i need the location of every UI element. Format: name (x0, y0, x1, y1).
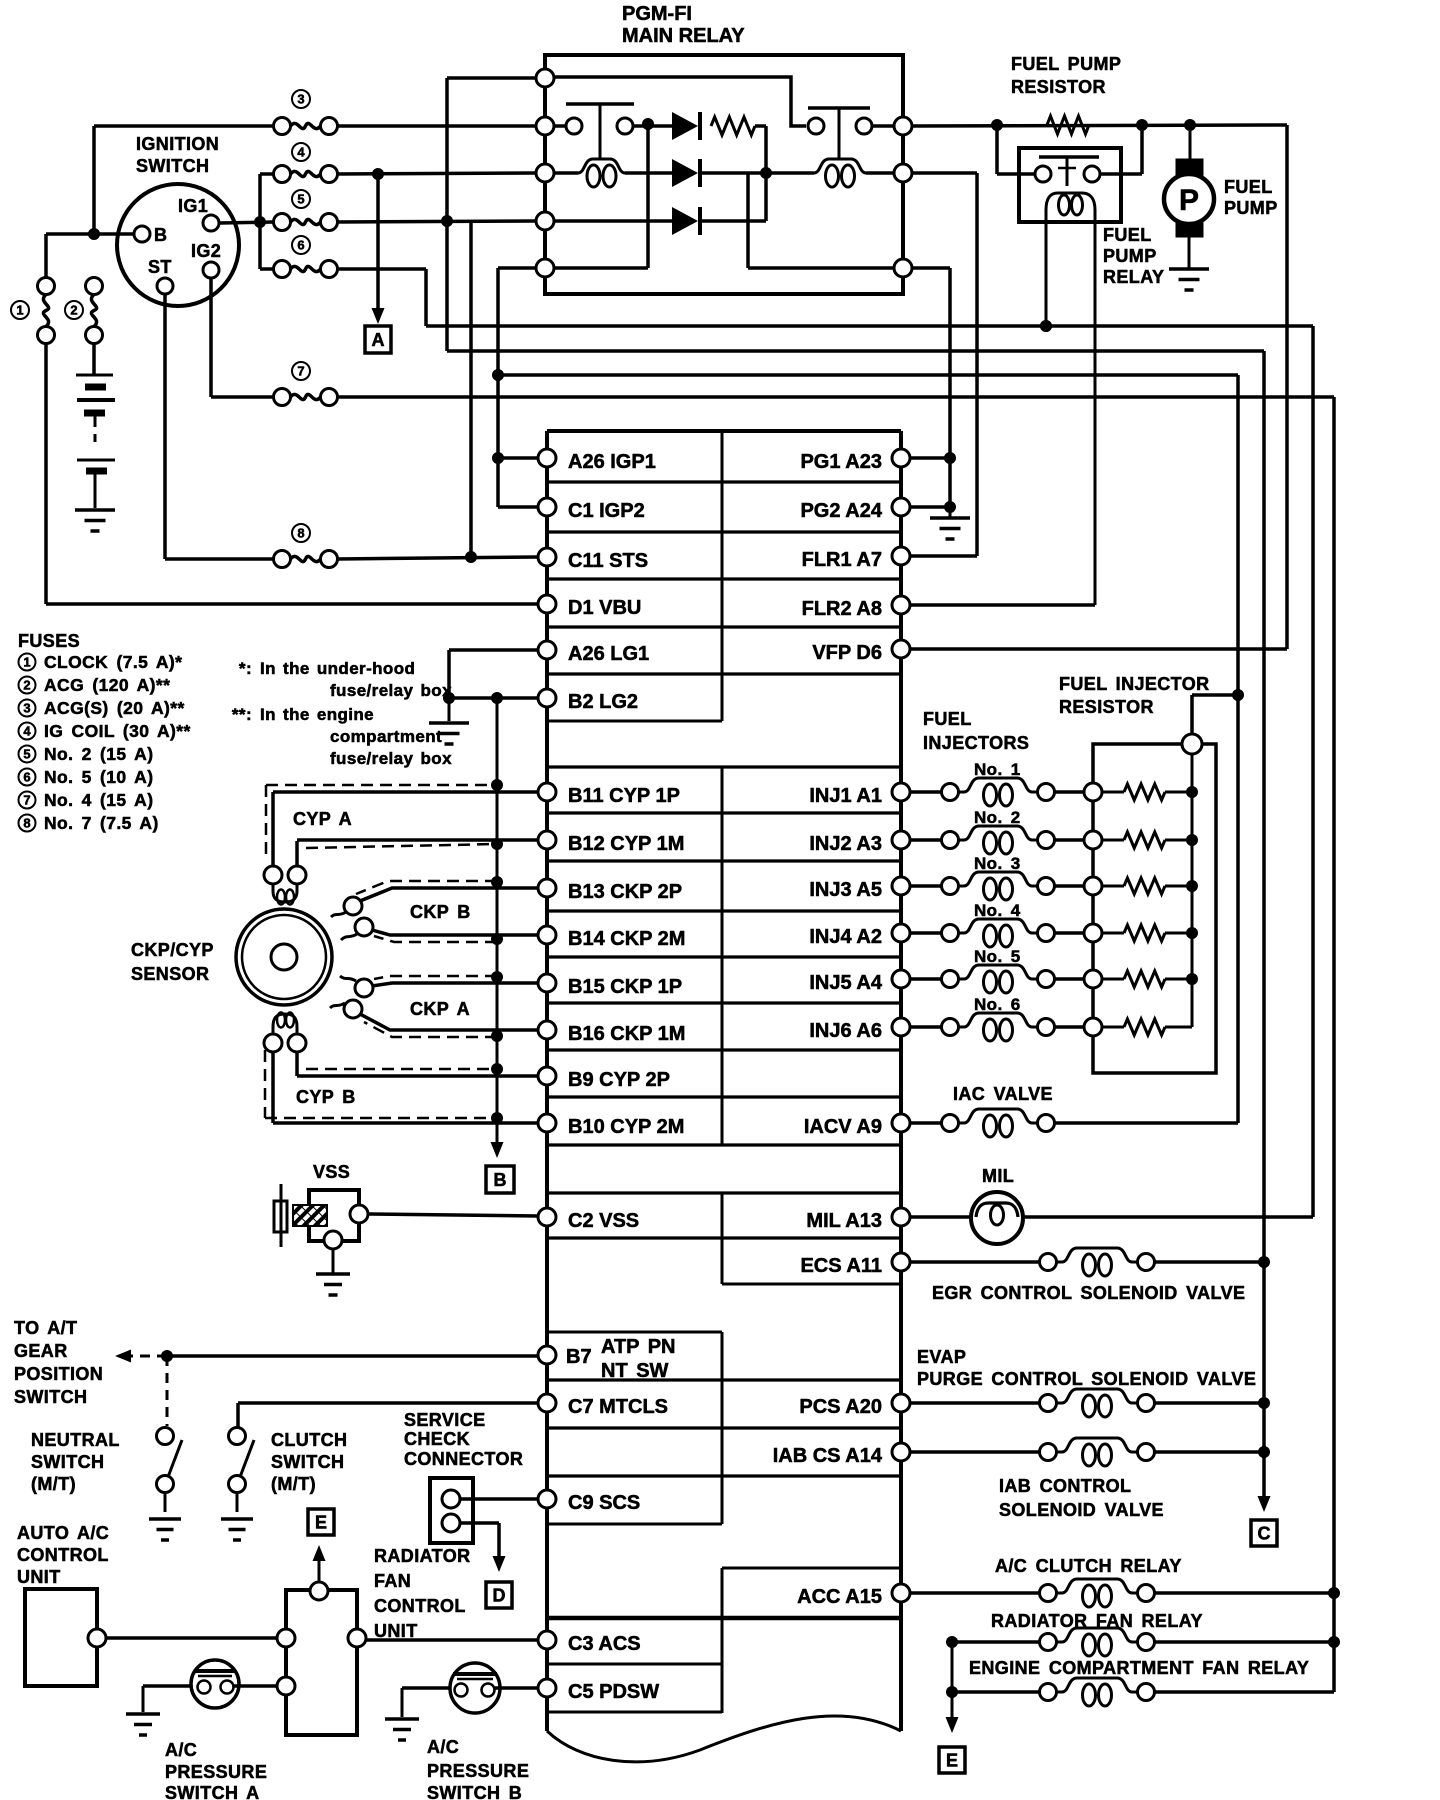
svg-text:B15 CKP 1P: B15 CKP 1P (568, 976, 682, 998)
svg-text:No. 2 (15 A): No. 2 (15 A) (44, 744, 153, 764)
svg-text:IG2: IG2 (191, 241, 221, 261)
svg-text:CHECK: CHECK (404, 1429, 470, 1449)
svg-text:C3 ACS: C3 ACS (568, 1633, 641, 1655)
svg-text:1: 1 (16, 303, 23, 318)
svg-text:5: 5 (297, 192, 304, 207)
svg-text:PCS A20: PCS A20 (799, 1396, 882, 1418)
svg-text:CONNECTOR: CONNECTOR (404, 1449, 523, 1469)
svg-text:No. 6: No. 6 (974, 995, 1021, 1014)
svg-text:TO A/T: TO A/T (14, 1318, 77, 1338)
svg-text:In the under-hood: In the under-hood (260, 659, 415, 678)
svg-text:No. 4 (15 A): No. 4 (15 A) (44, 790, 153, 810)
svg-text:RELAY: RELAY (1103, 267, 1164, 287)
svg-text:compartment: compartment (330, 727, 442, 746)
svg-text:4: 4 (23, 724, 31, 739)
svg-text:ECS A11: ECS A11 (800, 1255, 882, 1277)
svg-text:A26 LG1: A26 LG1 (568, 643, 649, 665)
svg-text:CLOCK (7.5 A)*: CLOCK (7.5 A)* (44, 652, 182, 672)
svg-text:No. 5 (10 A): No. 5 (10 A) (44, 767, 153, 787)
svg-text:ATP PN: ATP PN (601, 1336, 676, 1358)
svg-text:C1 IGP2: C1 IGP2 (568, 500, 645, 522)
svg-text:IAC VALVE: IAC VALVE (953, 1084, 1053, 1104)
svg-text:PG2 A24: PG2 A24 (800, 500, 882, 522)
svg-text:INJ1 A1: INJ1 A1 (809, 785, 882, 807)
svg-text:PGM-FI: PGM-FI (622, 3, 692, 25)
svg-text:**:: **: (232, 705, 252, 724)
svg-text:PURGE CONTROL SOLENOID VALVE: PURGE CONTROL SOLENOID VALVE (917, 1369, 1256, 1389)
svg-text:SWITCH: SWITCH (271, 1452, 344, 1472)
svg-text:No. 4: No. 4 (974, 901, 1021, 920)
svg-text:In the engine: In the engine (260, 705, 374, 724)
svg-text:PRESSURE: PRESSURE (165, 1762, 267, 1782)
svg-text:VSS: VSS (313, 1162, 350, 1182)
svg-text:RESISTOR: RESISTOR (1059, 697, 1154, 717)
svg-text:IGNITION: IGNITION (136, 134, 219, 154)
svg-text:*:: *: (239, 659, 252, 678)
svg-text:INJ4 A2: INJ4 A2 (809, 926, 882, 948)
svg-text:FLR1 A7: FLR1 A7 (802, 549, 882, 571)
svg-text:B9 CYP 2P: B9 CYP 2P (568, 1069, 670, 1091)
svg-text:D: D (493, 1586, 506, 1606)
svg-text:(M/T): (M/T) (31, 1474, 76, 1494)
svg-text:GEAR: GEAR (14, 1341, 68, 1361)
svg-text:fuse/relay box: fuse/relay box (330, 681, 452, 700)
svg-text:INJ2 A3: INJ2 A3 (809, 833, 882, 855)
svg-text:FUSES: FUSES (18, 631, 80, 651)
svg-text:NT SW: NT SW (601, 1360, 669, 1382)
svg-text:UNIT: UNIT (17, 1567, 61, 1587)
svg-text:3: 3 (297, 92, 304, 107)
svg-text:7: 7 (297, 364, 304, 379)
svg-text:1: 1 (23, 655, 30, 670)
svg-text:A/C CLUTCH RELAY: A/C CLUTCH RELAY (995, 1556, 1182, 1576)
svg-text:ST: ST (148, 257, 172, 277)
svg-text:FLR2 A8: FLR2 A8 (802, 598, 882, 620)
svg-text:NEUTRAL: NEUTRAL (31, 1430, 120, 1450)
svg-text:IG1: IG1 (178, 196, 208, 216)
svg-text:B12 CYP 1M: B12 CYP 1M (568, 833, 684, 855)
svg-text:ENGINE COMPARTMENT FAN RELAY: ENGINE COMPARTMENT FAN RELAY (969, 1658, 1309, 1678)
svg-text:C2 VSS: C2 VSS (568, 1210, 639, 1232)
svg-text:C: C (1258, 1524, 1271, 1544)
svg-text:IAB CONTROL: IAB CONTROL (999, 1476, 1131, 1496)
svg-text:No. 2: No. 2 (974, 808, 1021, 827)
svg-text:No. 3: No. 3 (974, 854, 1021, 873)
svg-text:B14 CKP 2M: B14 CKP 2M (568, 928, 685, 950)
svg-text:5: 5 (23, 747, 30, 762)
svg-text:3: 3 (23, 701, 30, 716)
svg-text:C9 SCS: C9 SCS (568, 1492, 640, 1514)
svg-text:PG1 A23: PG1 A23 (800, 451, 882, 473)
svg-text:2: 2 (23, 678, 30, 693)
svg-text:fuse/relay box: fuse/relay box (330, 749, 452, 768)
svg-text:8: 8 (23, 816, 30, 831)
svg-text:SWITCH A: SWITCH A (165, 1783, 260, 1800)
svg-text:CONTROL: CONTROL (374, 1596, 466, 1616)
svg-text:B11 CYP 1P: B11 CYP 1P (568, 785, 680, 807)
svg-text:A: A (372, 330, 385, 350)
svg-text:A/C: A/C (165, 1740, 197, 1760)
svg-text:PUMP: PUMP (1224, 198, 1278, 218)
svg-text:B2 LG2: B2 LG2 (568, 691, 638, 713)
svg-text:No. 1: No. 1 (974, 760, 1021, 779)
svg-text:FUEL: FUEL (923, 709, 972, 729)
svg-text:A26 IGP1: A26 IGP1 (568, 451, 656, 473)
svg-text:SWITCH: SWITCH (31, 1452, 104, 1472)
svg-text:SWITCH B: SWITCH B (427, 1783, 522, 1800)
svg-text:FAN: FAN (374, 1571, 411, 1591)
svg-text:E: E (315, 1513, 327, 1533)
svg-text:8: 8 (297, 526, 304, 541)
svg-text:B: B (494, 1170, 507, 1190)
svg-text:SWITCH: SWITCH (14, 1387, 87, 1407)
svg-text:CONTROL: CONTROL (17, 1545, 109, 1565)
svg-text:FUEL PUMP: FUEL PUMP (1011, 54, 1121, 74)
svg-text:D1 VBU: D1 VBU (568, 597, 641, 619)
svg-text:7: 7 (23, 793, 30, 808)
svg-text:PUMP: PUMP (1103, 246, 1157, 266)
svg-text:FUEL INJECTOR: FUEL INJECTOR (1059, 674, 1210, 694)
svg-text:B10 CYP 2M: B10 CYP 2M (568, 1116, 684, 1138)
svg-text:CKP/CYP: CKP/CYP (131, 940, 214, 960)
svg-text:CYP A: CYP A (293, 809, 352, 829)
svg-text:A/C: A/C (427, 1737, 459, 1757)
svg-text:C5 PDSW: C5 PDSW (568, 1681, 659, 1703)
svg-text:ACC A15: ACC A15 (797, 1586, 882, 1608)
svg-text:IACV A9: IACV A9 (804, 1116, 882, 1138)
svg-text:CKP B: CKP B (410, 902, 471, 922)
svg-text:INJ6 A6: INJ6 A6 (809, 1020, 882, 1042)
svg-text:SERVICE: SERVICE (404, 1410, 486, 1430)
svg-text:4: 4 (297, 145, 305, 160)
svg-text:RESISTOR: RESISTOR (1011, 77, 1106, 97)
svg-text:B7: B7 (566, 1346, 592, 1368)
svg-text:FUEL: FUEL (1224, 177, 1273, 197)
svg-text:UNIT: UNIT (374, 1621, 418, 1641)
svg-text:ACG (120 A)**: ACG (120 A)** (44, 675, 170, 695)
svg-text:IAB CS A14: IAB CS A14 (773, 1445, 883, 1467)
svg-text:MAIN RELAY: MAIN RELAY (622, 25, 745, 47)
svg-text:VFP D6: VFP D6 (812, 642, 882, 664)
svg-text:FUEL: FUEL (1103, 225, 1152, 245)
svg-text:RADIATOR: RADIATOR (374, 1546, 471, 1566)
svg-text:SENSOR: SENSOR (131, 964, 209, 984)
svg-text:C7 MTCLS: C7 MTCLS (568, 1396, 668, 1418)
svg-text:MIL: MIL (982, 1166, 1014, 1186)
svg-text:AUTO A/C: AUTO A/C (17, 1523, 109, 1543)
svg-text:CLUTCH: CLUTCH (271, 1430, 347, 1450)
svg-text:C11 STS: C11 STS (568, 550, 648, 572)
svg-text:INJ3 A5: INJ3 A5 (809, 879, 882, 901)
svg-text:6: 6 (23, 770, 30, 785)
svg-text:No. 7 (7.5 A): No. 7 (7.5 A) (44, 813, 159, 833)
svg-text:ACG(S) (20 A)**: ACG(S) (20 A)** (44, 698, 185, 718)
svg-text:6: 6 (297, 238, 304, 253)
svg-text:No. 5: No. 5 (974, 947, 1021, 966)
svg-text:SWITCH: SWITCH (136, 156, 209, 176)
svg-text:INJ5 A4: INJ5 A4 (809, 972, 883, 994)
svg-text:IG COIL (30 A)**: IG COIL (30 A)** (44, 721, 191, 741)
svg-text:2: 2 (70, 303, 77, 318)
svg-text:POSITION: POSITION (14, 1364, 103, 1384)
svg-text:SOLENOID VALVE: SOLENOID VALVE (999, 1500, 1164, 1520)
svg-text:EGR CONTROL SOLENOID VALVE: EGR CONTROL SOLENOID VALVE (932, 1283, 1245, 1303)
svg-text:CKP A: CKP A (410, 999, 470, 1019)
svg-text:EVAP: EVAP (917, 1347, 966, 1367)
svg-text:PRESSURE: PRESSURE (427, 1761, 529, 1781)
svg-text:(M/T): (M/T) (271, 1474, 316, 1494)
svg-text:E: E (946, 1751, 958, 1771)
svg-text:MIL A13: MIL A13 (806, 1210, 882, 1232)
svg-text:B16 CKP 1M: B16 CKP 1M (568, 1023, 685, 1045)
svg-text:B13 CKP 2P: B13 CKP 2P (568, 881, 682, 903)
svg-text:CYP B: CYP B (296, 1087, 356, 1107)
svg-text:B: B (154, 225, 167, 245)
svg-text:INJECTORS: INJECTORS (923, 733, 1029, 753)
svg-text:P: P (1179, 184, 1199, 217)
